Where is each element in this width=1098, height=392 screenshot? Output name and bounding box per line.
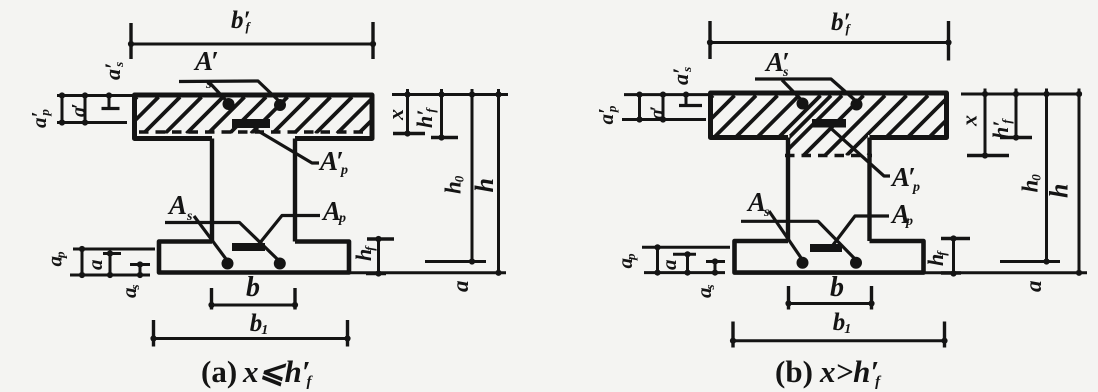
svg-text:(a): (a) xyxy=(201,354,237,389)
svg-text:x: x xyxy=(383,109,408,121)
dimension a'_s line (figure b) xyxy=(685,95,688,106)
svg-text:h′f: h′f xyxy=(412,107,438,128)
svg-text:A′: A′ xyxy=(318,146,344,176)
dimension a'_p line (figure a) xyxy=(61,96,64,123)
svg-text:a′s: a′s xyxy=(668,67,694,85)
svg-text:x: x xyxy=(957,115,982,127)
tendon bar A'_p (figure a) xyxy=(232,119,270,128)
tendon bar A_p (figure a) xyxy=(232,243,265,251)
svg-text:a′: a′ xyxy=(647,106,669,120)
svg-text:p: p xyxy=(905,214,913,229)
bottom flange outline (figure a) xyxy=(159,242,349,273)
leader A'_p (figure b) xyxy=(830,128,890,177)
svg-text:b′f: b′f xyxy=(831,9,852,36)
extension line steel centroid (figure a) xyxy=(425,260,486,263)
leader A_p (figure a) xyxy=(259,216,320,245)
dimension h (figure b) xyxy=(1078,89,1081,276)
dimension b_1 (figure b) xyxy=(733,339,945,342)
svg-text:h′f: h′f xyxy=(988,118,1014,139)
extension lines top-left (figure a) xyxy=(57,94,134,97)
svg-text:h: h xyxy=(470,178,499,192)
dimension a_p line (figure b) xyxy=(656,247,659,272)
svg-text:A: A xyxy=(167,190,187,220)
svg-text:b′f: b′f xyxy=(231,7,252,34)
dimension b'_f (figure a) xyxy=(131,43,373,46)
dimension h_0 (figure b) xyxy=(1045,89,1048,264)
top extension line right (figure b) xyxy=(961,93,1082,96)
dimension h_f (figure a) xyxy=(377,239,380,274)
dimension a_s line (figure a) xyxy=(139,265,142,276)
dimension a_p line (figure a) xyxy=(81,249,84,275)
leader A_p (figure b) xyxy=(833,216,889,245)
dashed line x-depth (figure b) xyxy=(785,154,872,157)
svg-text:x>h′f: x>h′f xyxy=(819,354,882,390)
dashed line x-depth (figure a) xyxy=(139,130,369,133)
svg-text:a: a xyxy=(448,281,473,293)
dimension h_0 (figure a) xyxy=(471,89,474,263)
svg-text:A: A xyxy=(321,196,341,226)
web left line (figure a) xyxy=(210,139,214,242)
leader A'_s (figure b) xyxy=(755,79,857,102)
dimension b (figure a) xyxy=(212,304,296,307)
rebar dots A'_s (figure b) xyxy=(797,98,809,110)
svg-text:p: p xyxy=(340,163,348,178)
svg-text:a: a xyxy=(83,260,107,271)
svg-text:b: b xyxy=(246,272,260,303)
web right line (figure b) xyxy=(867,138,871,242)
rebar dots A_s (figure b) xyxy=(797,257,809,269)
leader A'_s (figure a) xyxy=(179,81,280,102)
top flange outline (figure b) xyxy=(711,93,947,138)
dimension h (figure a) xyxy=(497,89,500,276)
svg-text:a′s: a′s xyxy=(100,62,126,80)
extension lines bottom-left (figure a) xyxy=(73,248,155,251)
svg-text:a: a xyxy=(657,260,681,271)
tendon bar A'_p (figure b) xyxy=(812,119,846,128)
top extension line right (figure a) xyxy=(392,93,508,96)
dimension x (figure a) xyxy=(406,89,409,134)
svg-text:b: b xyxy=(830,272,844,303)
svg-text:A: A xyxy=(746,187,766,217)
svg-text:h: h xyxy=(1045,184,1074,198)
extension line bottom edge (figure b) xyxy=(924,271,1087,274)
dimension a'_s line (figure a) xyxy=(108,96,111,109)
svg-text:p: p xyxy=(912,180,920,195)
extension line bottom edge (figure a) xyxy=(350,271,506,274)
dimension a_s line (figure b) xyxy=(714,262,717,273)
svg-text:p: p xyxy=(338,211,346,226)
dimension b'_f (figure b) xyxy=(710,41,949,44)
svg-text:A′: A′ xyxy=(193,46,219,76)
leader A_s (figure b) xyxy=(769,211,803,260)
svg-text:A′: A′ xyxy=(890,162,916,192)
svg-text:a′: a′ xyxy=(68,103,90,117)
tendon bar A_p (figure b) xyxy=(810,244,842,252)
bottom flange outline (figure b) xyxy=(735,241,924,273)
dimension h'_f (figure a) xyxy=(440,89,443,138)
dimension h'_f (figure b) xyxy=(1015,89,1018,138)
dimension a line (figure a) xyxy=(109,254,112,276)
web left line (figure b) xyxy=(786,138,790,242)
dimension x (figure b) xyxy=(984,89,987,156)
leader A'_p (figure a) xyxy=(254,129,319,164)
dimension b_1 (figure a) xyxy=(154,337,348,340)
dimension h_f (figure b) xyxy=(952,239,955,274)
dimension b (figure b) xyxy=(789,302,872,305)
extension lines bottom-left (figure b) xyxy=(642,246,730,249)
dimension a' line (figure b) xyxy=(662,95,665,120)
svg-text:(b): (b) xyxy=(775,354,813,389)
dimension a'_p line (figure b) xyxy=(638,95,641,120)
top flange outline (figure a) xyxy=(135,95,373,139)
extension line steel centroid (figure b) xyxy=(1000,260,1060,263)
rebar dots A_s (figure a) xyxy=(222,258,234,270)
extension lines top-left (figure b) xyxy=(624,93,712,96)
dimension a' line (figure a) xyxy=(84,96,87,123)
web right line (figure a) xyxy=(293,139,297,242)
svg-text:x⩽h′f: x⩽h′f xyxy=(242,354,313,390)
dimension a line (figure b) xyxy=(686,254,689,272)
svg-text:a: a xyxy=(1021,281,1046,293)
rebar dots A'_s (figure a) xyxy=(223,98,235,110)
leader A_s (figure a) xyxy=(194,216,228,261)
